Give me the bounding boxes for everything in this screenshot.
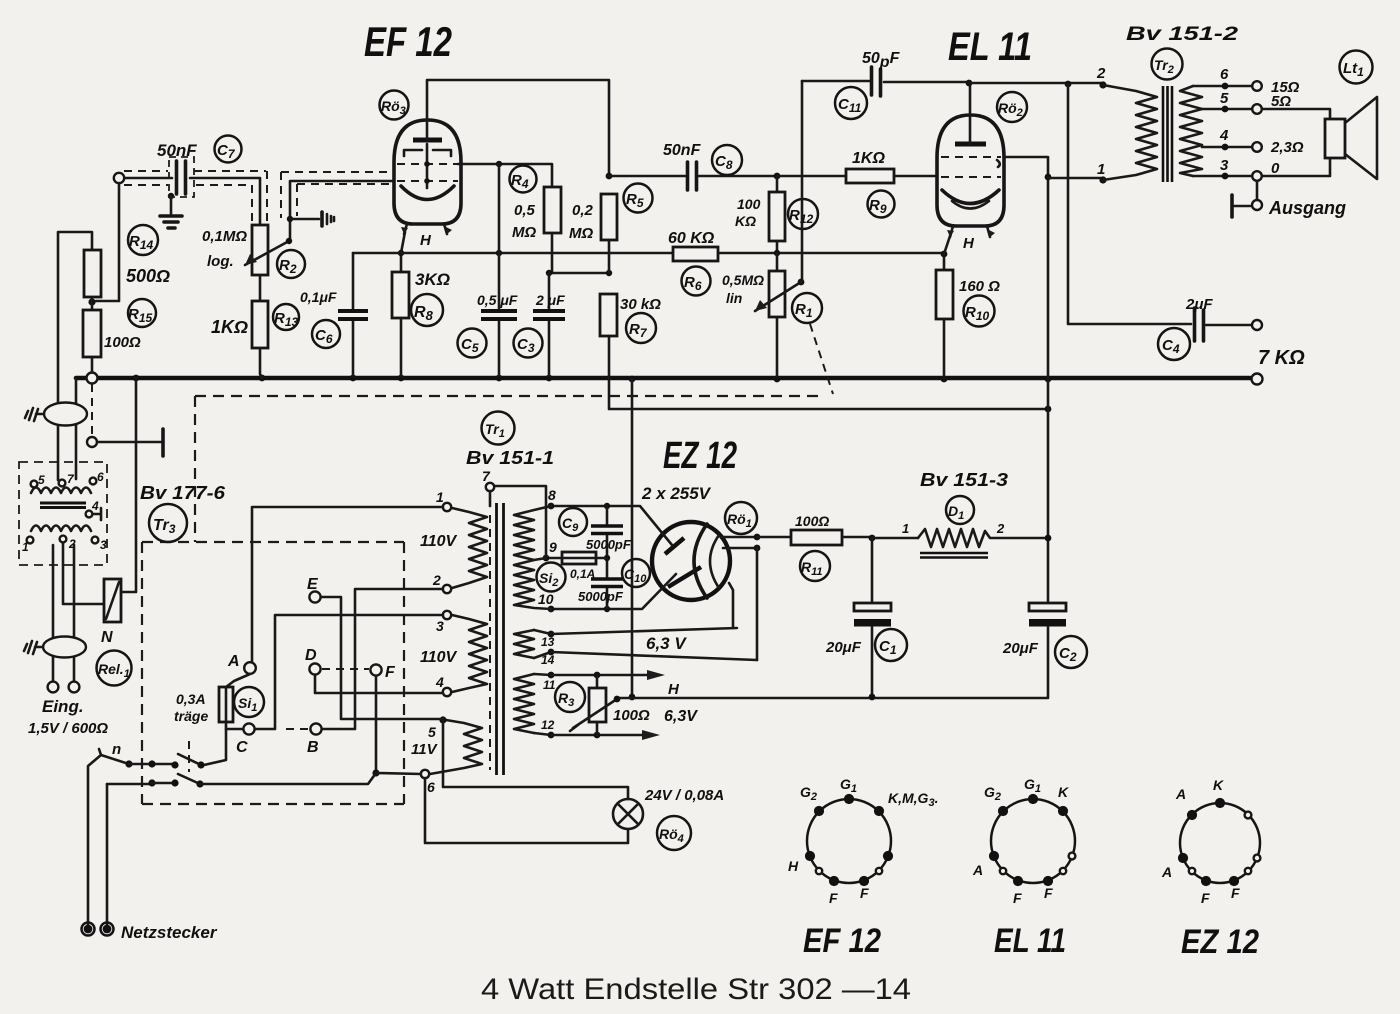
EL11 heater pins [947, 226, 995, 237]
wire tap 5 to speaker [1262, 109, 1330, 119]
svg-text:0,2: 0,2 [572, 202, 594, 219]
EL11 socket pin labels [972, 776, 1069, 906]
fuse Si2 0,1A [543, 552, 607, 564]
svg-text:C: C [236, 739, 248, 756]
svg-text:2μF: 2μF [1185, 296, 1213, 313]
cathode feedback rail [353, 250, 947, 258]
label N [101, 629, 113, 646]
label 2,3 ohm [1270, 139, 1304, 156]
wire HV terminal 10 to EZ12 plate [548, 574, 676, 612]
svg-text:lin: lin [726, 290, 742, 306]
svg-text:EZ 12: EZ 12 [1181, 923, 1259, 961]
Tr1 terminal 6 [421, 770, 435, 795]
EL11 anode bar [955, 142, 986, 147]
Tr2 primary winding [1103, 85, 1157, 180]
label 110V lower [420, 649, 458, 666]
svg-text:6: 6 [97, 470, 104, 484]
svg-text:F: F [1044, 885, 1053, 901]
label 100 K ohm [735, 196, 761, 229]
small dashed stub at switch [188, 741, 190, 772]
wire EF12 cathode down [398, 232, 405, 272]
svg-text:13: 13 [541, 635, 555, 649]
svg-text:2: 2 [432, 572, 441, 588]
wire chassis terminal to bar [97, 441, 161, 444]
chassis terminal circle [87, 437, 97, 447]
Netzstecker terminal right [101, 923, 114, 936]
svg-text:H: H [420, 232, 432, 249]
capacitor C6 plates [338, 253, 368, 376]
Tr1 terminal 12 [541, 718, 555, 738]
bus junction dots [133, 375, 1052, 383]
EF12 cathode arc [401, 186, 454, 200]
potentiometer R3 100 ohm hum balance [589, 675, 606, 735]
EL11 socket title [994, 922, 1066, 960]
label 11V [411, 741, 439, 758]
rectifier title EZ12 [663, 435, 737, 477]
tube EL11 envelope [937, 115, 1004, 226]
designator Ro1 [725, 502, 757, 534]
Tr3 core bars [40, 503, 86, 508]
wire input terminal down to R14/R15 node [96, 183, 119, 301]
link D to F dashed [322, 668, 369, 670]
svg-text:1: 1 [1097, 161, 1105, 178]
node C8 R12 R9 junction [774, 173, 781, 180]
wire grid lead to EF12 [290, 181, 393, 242]
svg-text:MΩ: MΩ [512, 224, 536, 241]
capacitor C5 0,5uF [481, 164, 517, 376]
designator C11 [835, 87, 867, 119]
EL11 control grid dashed [941, 176, 1001, 178]
svg-text:F: F [1231, 885, 1240, 901]
svg-text:2: 2 [996, 521, 1005, 536]
svg-text:F: F [385, 664, 396, 681]
dashed wire bus to chassis terminal [91, 384, 93, 436]
wire bus left end down to input jack [75, 378, 78, 403]
wire terminal 5 to pilot lamp [443, 720, 628, 799]
label 50pF [862, 50, 901, 71]
switch pole 1 moving arm [178, 754, 205, 769]
wire C11 down to R1 wiper [801, 81, 804, 282]
resistor R7 30k [600, 294, 617, 336]
wire R2 to R13 [259, 275, 262, 301]
node R4 bottom to screen supply [546, 270, 612, 276]
svg-text:n: n [112, 741, 121, 758]
chassis dashed box left edge upper [194, 396, 196, 542]
resistor R9 1K grid stopper [777, 169, 937, 183]
wire heater 14 up to cathode node [756, 548, 759, 660]
svg-text:2 μF: 2 μF [535, 292, 565, 308]
EL11 cathode wire to R10 [944, 233, 951, 270]
svg-text:MΩ: MΩ [569, 225, 593, 242]
svg-text:1KΩ: 1KΩ [211, 317, 248, 337]
resistor R5 0,2M anode load [601, 173, 617, 273]
chassis ground symbol at grid tap [322, 212, 334, 226]
designator R12 [788, 199, 818, 229]
designator R5 [624, 184, 653, 213]
svg-text:160 Ω: 160 Ω [959, 278, 1000, 295]
capacitor C1 20uF [854, 538, 891, 697]
wire C7 to R2 [190, 178, 260, 225]
shield dashed box around C7 [169, 157, 194, 197]
svg-text:3KΩ: 3KΩ [415, 270, 450, 289]
Tr1 terminal 1 [436, 489, 451, 511]
svg-text:Bv 177-6: Bv 177-6 [140, 483, 226, 503]
svg-text:H: H [963, 235, 975, 252]
svg-text:1: 1 [22, 540, 29, 554]
label H under EL11 [963, 235, 975, 252]
Tr3 lower winding [31, 526, 91, 532]
mains switch pole 2 [107, 779, 179, 786]
svg-text:Bv 151-2: Bv 151-2 [1126, 24, 1239, 45]
node D1 output to B+ riser [1045, 535, 1052, 542]
Tr1 terminal 10 label [538, 591, 554, 607]
designator D1 [946, 496, 974, 524]
designator Ro2 [997, 92, 1027, 122]
svg-text:7 KΩ: 7 KΩ [1258, 347, 1305, 369]
svg-text:50nF: 50nF [157, 141, 197, 160]
wire terminal 6 to pilot lamp return [425, 778, 628, 843]
wire fuse to C [226, 726, 243, 729]
designator R1 [792, 293, 822, 323]
svg-text:7: 7 [482, 468, 491, 484]
designator R2 [277, 250, 305, 278]
resistor R10 160 ohm [936, 270, 953, 376]
Tr1 terminal 11 [543, 672, 556, 692]
wire bus branch through grommet to Tr3 [75, 403, 78, 479]
svg-text:10: 10 [538, 591, 554, 607]
Tr3 lower terminals 1 2 3 [22, 536, 107, 554]
label Bv 151-3 [920, 470, 1008, 490]
Tr1 HV secondary winding [514, 506, 551, 609]
designator Ro3 [380, 91, 409, 120]
svg-text:6,3V: 6,3V [664, 708, 698, 725]
svg-text:1,5V / 600Ω: 1,5V / 600Ω [28, 720, 108, 737]
label 24V/0,08A [644, 787, 724, 804]
svg-text:0,5MΩ: 0,5MΩ [722, 272, 764, 288]
label 0 tap [1271, 160, 1280, 177]
designator C8 [712, 145, 742, 175]
designator C4 [1158, 328, 1190, 360]
svg-text:KΩ: KΩ [735, 213, 756, 229]
label 2uF [535, 292, 565, 308]
label 0,1A [570, 567, 595, 581]
svg-text:0,1μF: 0,1μF [300, 289, 337, 305]
wire R14 branch through grommet to Tr3 [57, 403, 60, 480]
svg-text:Bv 151-3: Bv 151-3 [920, 470, 1008, 490]
capacitor C11 50pF feedback [802, 67, 969, 96]
svg-text:5: 5 [38, 473, 45, 487]
wire anode node to Tr2 primary [969, 81, 1101, 88]
node C1 tap [869, 535, 876, 542]
svg-text:F: F [829, 890, 838, 906]
resistor R11 100 ohm filter [757, 530, 872, 545]
EZ12 socket title [1181, 923, 1259, 961]
tube stage title EF12 [364, 18, 452, 65]
svg-text:6,3 V: 6,3 V [646, 634, 687, 653]
svg-text:2: 2 [1096, 65, 1106, 82]
designator R7 [626, 313, 656, 343]
Tr2 tap 3 wire [1193, 157, 1262, 181]
selector dashed box bottom edge [142, 803, 404, 805]
Tr1 terminal 3 [436, 611, 451, 634]
svg-text:0,1MΩ: 0,1MΩ [202, 228, 247, 245]
relay feed wire from bus [121, 378, 136, 592]
designator Si1 [234, 687, 264, 717]
svg-text:0,5 μF: 0,5 μF [477, 292, 518, 308]
mains lead left [88, 755, 101, 925]
svg-text:100Ω: 100Ω [795, 513, 829, 529]
relay N coil [104, 579, 121, 622]
rectifier tube EZ12 envelope [652, 522, 730, 600]
transformer label Bv 151-2 [1126, 24, 1239, 45]
resistor R13 1K [252, 301, 268, 378]
svg-text:B: B [307, 739, 319, 756]
label 6,3V heater [646, 634, 687, 653]
capacitor C2 20uF [1029, 603, 1066, 697]
svg-text:H: H [788, 858, 799, 874]
EL11 anode lead [969, 83, 972, 144]
Tr2 secondary winding [1180, 86, 1202, 176]
capacitor C4 2uF [1195, 308, 1263, 341]
svg-text:0: 0 [1271, 160, 1280, 177]
svg-text:0,1A: 0,1A [570, 567, 595, 581]
svg-text:4: 4 [91, 499, 99, 513]
label 0,5 M ohm [512, 202, 536, 241]
chassis bar symbol [161, 429, 165, 456]
hatch marks at upper grommet [25, 408, 44, 421]
svg-text:K: K [1058, 784, 1069, 800]
EL11 screen wire to B+ rail [966, 80, 1052, 603]
label 100 ohm R11 [795, 513, 829, 529]
designator C3 [514, 329, 543, 358]
selector dashed box right edge [403, 542, 405, 804]
svg-text:1KΩ: 1KΩ [852, 150, 885, 167]
designator R4 [510, 166, 537, 193]
wire EF12 anode to top rail [427, 80, 609, 176]
svg-text:Eing.: Eing. [42, 697, 84, 716]
svg-text:EL 11: EL 11 [948, 25, 1032, 69]
terminal A [227, 653, 256, 674]
wire 14 to cathode node [551, 652, 757, 660]
label Ausgang [1268, 198, 1346, 218]
resistor R6 60k [673, 247, 718, 261]
ground bus wire [76, 376, 1250, 381]
capacitor C8 50nF coupling [609, 162, 777, 190]
wire ground drop from bus to PSU [629, 379, 636, 700]
svg-text:0,3A: 0,3A [176, 691, 206, 707]
EZ12 cathode output leads [722, 534, 760, 552]
label 0,5uF [477, 292, 518, 308]
label 1K ohm R9 [852, 150, 885, 167]
wire C node down to mains switch [204, 729, 226, 765]
label H heater [668, 681, 680, 698]
resistor R15 100 ohm [83, 310, 101, 372]
label Netzstecker [121, 923, 218, 942]
EF12 internal stem [424, 144, 430, 188]
label 30k ohm [620, 296, 661, 313]
EZ12 socket diagram [1178, 798, 1261, 886]
svg-text:5000pF: 5000pF [578, 589, 624, 604]
capacitor C7 50nF [177, 161, 186, 194]
designator R10 [964, 296, 995, 327]
hatch marks at lower grommet [24, 641, 43, 654]
terminal B [307, 723, 322, 756]
label 0,1uF for C6 [300, 289, 337, 305]
EF12 socket title [803, 922, 881, 960]
EF12 control grid dashed [397, 180, 458, 182]
svg-text:110V: 110V [420, 649, 458, 666]
wire terminal 3 to C [256, 615, 443, 729]
tube EF12 envelope [394, 120, 461, 224]
resistor R4 0,5M [544, 187, 561, 273]
svg-text:EZ 12: EZ 12 [663, 435, 737, 477]
designator R3 [555, 682, 585, 712]
svg-text:4 Watt Endstelle Str 302 —14: 4 Watt Endstelle Str 302 —14 [481, 973, 911, 1006]
svg-text:EL 11: EL 11 [994, 922, 1066, 960]
bus terminal open circle right 7K output [1252, 374, 1263, 385]
bus terminal open circle left [87, 373, 98, 384]
svg-text:K: K [1213, 777, 1224, 793]
Tr3 output leads down [53, 545, 74, 681]
shield dashed around grid wire [281, 172, 392, 218]
svg-text:8: 8 [548, 487, 556, 503]
R2 wiper arrow [245, 238, 292, 265]
fuse Si1 0,3A [219, 687, 233, 726]
capacitor C9 5000pF [591, 506, 623, 558]
EZ12 socket pin labels [1161, 777, 1240, 906]
wire input to C7 [125, 177, 172, 180]
wire screen grid to R4 [458, 161, 552, 187]
Tr2 tap 5 wire [1202, 90, 1262, 114]
svg-text:F: F [1013, 890, 1022, 906]
label 5000pF lower [578, 589, 624, 604]
label 60 K ohm [668, 230, 715, 247]
svg-text:F: F [1201, 890, 1210, 906]
svg-text:E: E [307, 576, 319, 593]
wire F down to mains row [372, 676, 379, 777]
EZ12 anode plates [665, 538, 701, 587]
svg-text:20μF: 20μF [825, 639, 862, 656]
svg-text:110V: 110V [420, 533, 458, 550]
svg-text:3: 3 [1220, 157, 1229, 174]
EL11 screen grid dashed [941, 157, 1001, 167]
svg-text:11V: 11V [411, 741, 439, 758]
wire pole 2 to Tr1 terminal 6 [200, 773, 421, 784]
svg-text:14: 14 [541, 653, 555, 667]
designator C9 [559, 508, 587, 536]
svg-text:3: 3 [100, 538, 107, 552]
svg-text:N: N [101, 629, 113, 646]
Tr2 tap 4 wire [1202, 127, 1262, 152]
label 20uF C2 [1002, 640, 1039, 657]
svg-text:A: A [972, 862, 983, 878]
designator C2 [1055, 636, 1087, 668]
svg-text:H: H [668, 681, 680, 698]
EF12 screen grid dashed [397, 163, 458, 165]
heater return wire with arrow [551, 730, 660, 740]
label 15 ohm [1271, 79, 1300, 96]
wire Tr3 terminal 2 to relay [63, 543, 104, 604]
Tr3 upper winding [31, 488, 91, 494]
Tr1 terminal 14 [541, 649, 555, 667]
designator R11 [800, 551, 830, 581]
label 110V upper [420, 533, 458, 550]
Tr2 core [1163, 86, 1172, 182]
svg-text:EF 12: EF 12 [803, 922, 881, 960]
R3 wiper to ground line [570, 696, 620, 731]
PSU ground return line [617, 694, 1048, 701]
Eingang terminal left [48, 682, 59, 693]
designator R8 [411, 294, 443, 326]
svg-text:A: A [1161, 864, 1172, 880]
Tr1 terminal 2 [432, 572, 451, 593]
svg-text:1: 1 [436, 489, 444, 505]
svg-text:EF 12: EF 12 [364, 18, 452, 65]
Tr2 tap 6 wire [1193, 66, 1262, 91]
Tr3 terminal 4 with tick [86, 499, 101, 520]
svg-text:6: 6 [427, 779, 435, 795]
svg-text:4: 4 [435, 674, 444, 690]
potentiometer R1 0,5M lin [769, 253, 785, 376]
label 2x255V [641, 484, 712, 503]
terminal C [236, 723, 255, 756]
label 0,3A traege [174, 691, 208, 724]
input transformer Tr3 dashed box [19, 462, 107, 565]
EZ12 filament lead to 13 [729, 583, 733, 628]
potentiometer R2 0.1M log [252, 225, 268, 275]
EF12 socket pin labels [788, 776, 938, 906]
label 0,1M ohm log [202, 228, 247, 270]
capacitor C3 2uF [533, 273, 565, 376]
EZ12 filament arcs [694, 524, 719, 598]
svg-text:Bv 151-1: Bv 151-1 [466, 448, 554, 468]
svg-text:5: 5 [1220, 90, 1229, 107]
svg-text:A: A [1175, 786, 1186, 802]
EF12 grid brackets [404, 150, 451, 156]
capacitor C10 5000pF [591, 555, 623, 609]
svg-text:träge: träge [174, 708, 208, 724]
designator R14 [128, 225, 158, 255]
designator Tr3 [149, 504, 187, 542]
EL11 socket diagram [989, 794, 1076, 886]
label Bv 177-6 [140, 483, 226, 503]
svg-text:500Ω: 500Ω [126, 266, 170, 286]
input terminal [114, 173, 124, 183]
svg-text:4: 4 [1219, 127, 1229, 144]
wire R14 feed from top corner [58, 232, 92, 403]
svg-text:100: 100 [737, 196, 761, 212]
wire 13 to EZ12 filament [551, 628, 737, 634]
terminal D [305, 647, 321, 675]
label 100 ohm [104, 334, 141, 351]
svg-text:11: 11 [543, 678, 556, 692]
svg-text:5Ω: 5Ω [1271, 93, 1291, 110]
choke D1 [872, 521, 1047, 547]
link C to B dashed [286, 728, 309, 730]
selector dashed box top edge [142, 541, 404, 543]
designator R15 [128, 299, 156, 327]
svg-text:60 KΩ: 60 KΩ [668, 230, 715, 247]
svg-text:100Ω: 100Ω [104, 334, 141, 351]
label 3K ohm [415, 270, 450, 289]
svg-text:30 kΩ: 30 kΩ [620, 296, 661, 313]
mains switch pole 1 [99, 749, 179, 769]
Tr2 primary terminal 2 [1096, 65, 1107, 89]
wire A to fuse Si1 [226, 674, 250, 687]
svg-text:9: 9 [549, 539, 557, 555]
wire terminal 5 to E [322, 597, 443, 719]
ground symbol below C7 [160, 216, 182, 228]
